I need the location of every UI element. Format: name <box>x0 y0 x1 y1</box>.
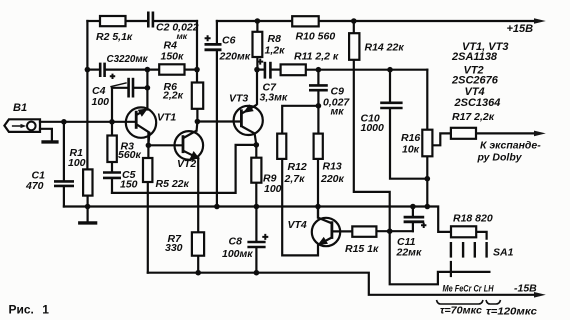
svg-text:мк: мк <box>177 31 188 41</box>
node: C6 bottom on rail <box>214 204 220 210</box>
wire: C1 branch <box>63 122 65 180</box>
switch SA1 contact 4 <box>485 243 487 256</box>
transistor VT3 <box>234 105 263 145</box>
svg-text:R5 22к: R5 22к <box>156 178 190 190</box>
node: R7 bottom on -15V rail <box>195 270 201 276</box>
plus C8 <box>262 234 268 240</box>
svg-text:SA1: SA1 <box>493 247 514 259</box>
svg-text:VT3: VT3 <box>229 93 248 105</box>
wire: R17 output arrow to expander <box>476 132 536 134</box>
svg-text:100мк: 100мк <box>222 248 253 260</box>
input connector B1 <box>4 119 40 132</box>
svg-text:220к: 220к <box>320 173 345 185</box>
node: R14 top on +15V rail <box>351 18 357 24</box>
wire: ground rail y=206.5 <box>64 207 451 232</box>
wire: switch wiper tick <box>450 262 452 276</box>
ground symbol at input connector <box>40 129 52 141</box>
wire: VT1 emitter vertical <box>146 70 148 110</box>
svg-text:1000: 1000 <box>361 122 385 134</box>
svg-text:100: 100 <box>68 157 86 169</box>
svg-text:C8: C8 <box>229 236 243 248</box>
node: R6 bottom / VT2 collector / VT3 base <box>195 119 201 125</box>
node: R16 bottom on rail <box>425 204 431 210</box>
wire: R5 bottom down to -15V rail <box>147 182 149 273</box>
plus C3 <box>110 74 115 79</box>
switch SA1 contact 1 <box>450 243 452 256</box>
svg-text:470: 470 <box>25 180 44 192</box>
wire: VT3 emitter up to R8/C7 node <box>256 70 258 104</box>
svg-text:150: 150 <box>120 179 138 191</box>
capacitor C4 plates <box>127 78 130 98</box>
svg-text:Рис. 1: Рис. 1 <box>9 303 50 317</box>
wire: feedback wire y=192.9 <box>112 145 256 193</box>
wire: VT1 collector to VT2 base node <box>147 133 149 158</box>
capacitor C2 plates <box>147 12 150 28</box>
wire: left vertical x=87.4 from R2 down through R1 to ground rail <box>86 21 88 169</box>
transistor VT2 <box>175 131 204 160</box>
wire: C9 bottom node to R12 <box>282 106 318 134</box>
wire: C8 branch <box>255 207 257 241</box>
svg-text:22мк: 22мк <box>396 247 422 259</box>
wire: VT2 emitter down through R7 to -15V rail <box>197 158 199 232</box>
wire: top-left loop horizontal (R2/C2 branch) <box>87 20 100 22</box>
svg-text:R17 2,2к: R17 2,2к <box>452 111 495 123</box>
svg-text:R12: R12 <box>288 161 307 173</box>
svg-text:2,2к: 2,2к <box>162 90 184 102</box>
resistor R12 <box>277 134 286 159</box>
svg-text:C6: C6 <box>222 35 236 47</box>
resistor R14 <box>349 33 359 60</box>
wire: R12 down and U to VT4 emitter <box>282 159 318 256</box>
wire: R6 node to VT3 base <box>197 120 241 122</box>
node: C8 bottom on -15V rail <box>254 270 260 276</box>
node: C9 top on y=69.7 wire <box>316 67 322 73</box>
transistor VT4 <box>312 207 340 247</box>
node: R15/C11/R14-line junction <box>387 228 393 234</box>
wire: +15V arrowhead <box>534 18 546 24</box>
node: R8/C7/VT3 emitter <box>254 67 260 73</box>
node: R4/R6 junction <box>194 67 200 73</box>
plus C7 <box>257 59 263 65</box>
svg-text:2SC1364: 2SC1364 <box>454 97 501 109</box>
resistor R13 <box>314 134 323 159</box>
resistor R16 <box>422 130 432 157</box>
svg-text:10к: 10к <box>402 144 420 156</box>
svg-text:2,7к: 2,7к <box>284 173 306 185</box>
svg-text:мк: мк <box>331 106 345 118</box>
svg-text:VT1: VT1 <box>157 112 176 124</box>
wire: C10 branch <box>389 70 391 102</box>
svg-text:R11 2,2 к: R11 2,2 к <box>294 51 339 63</box>
node: R8 top on +15V rail <box>255 18 261 24</box>
svg-text:R16: R16 <box>401 132 420 144</box>
resistor R1 <box>83 169 92 195</box>
node: R9 bottom / C8 on rail <box>254 204 260 210</box>
svg-text:С3220мк: С3220мк <box>107 54 149 65</box>
transistor VT1 <box>126 107 156 145</box>
node: input/C1 junction <box>61 119 67 125</box>
capacitor C1 plates <box>54 180 74 183</box>
svg-text:100: 100 <box>264 183 282 195</box>
capacitor C9 plates <box>309 84 328 87</box>
wire: R15 right to C11 <box>376 230 413 232</box>
polarity plus signs <box>110 35 427 240</box>
svg-text:B1: B1 <box>13 102 27 114</box>
svg-text:R10 560: R10 560 <box>296 31 336 43</box>
resistor R7 <box>192 232 204 255</box>
resistor R8 <box>253 32 263 57</box>
capacitor C6 plates <box>205 43 222 46</box>
wire: R18 right lead down to contact <box>476 232 486 239</box>
wire: R14 column with jog down to switch common <box>353 21 355 33</box>
plus C11 <box>421 223 426 228</box>
resistor R3 <box>107 136 116 163</box>
node: C9 bottom / R12 / R13 <box>316 103 322 109</box>
wire: VT2 collector up to R6 node <box>196 122 199 131</box>
wire: vertical x=197 (C2 corner down to R6) <box>196 21 198 83</box>
wire: horizontal y=69.6 right section (C7/R11/C9/C10/R16) <box>257 68 264 70</box>
wire: R16 leads <box>426 70 428 130</box>
node: VT3 collector / R9 / feedback <box>253 142 259 148</box>
svg-text:2SA1138: 2SA1138 <box>451 51 498 63</box>
switch SA1 contact 2 <box>462 243 464 256</box>
wire: VT3 collector node down through R9 to ground rail <box>255 145 257 158</box>
svg-text:R8: R8 <box>268 33 282 45</box>
svg-text:220мк: 220мк <box>219 51 251 63</box>
svg-text:τ=70мкс: τ=70мкс <box>440 306 482 317</box>
resistor R2 <box>100 16 126 26</box>
resistor R4 <box>159 64 184 74</box>
svg-text:τ=120мкс: τ=120мкс <box>486 307 537 318</box>
svg-text:Ме FeCr Cr LH: Ме FeCr Cr LH <box>443 284 494 294</box>
node: VT1 emitter on y=69.6 wire <box>145 67 151 73</box>
svg-text:VT4: VT4 <box>288 219 307 231</box>
node: C10 bottom wire to R16 line <box>425 176 431 182</box>
svg-text:-15В: -15В <box>514 283 537 295</box>
wire: R16 wiper to R17 <box>432 133 451 145</box>
resistor R10 <box>292 16 319 26</box>
capacitor C11 plates <box>404 216 425 219</box>
ground symbol on ground rail <box>86 207 88 222</box>
wire: R3/C5 branch vertical x=112 <box>111 122 113 136</box>
svg-text:+15В: +15В <box>507 23 534 35</box>
node: C11 top on rail <box>410 204 416 210</box>
wire: VT4 base to R15 <box>332 230 352 232</box>
svg-text:560к: 560к <box>118 149 142 161</box>
node: R1 / ground symbol on rail <box>85 204 91 210</box>
wire: R13 top lead <box>317 106 319 134</box>
svg-text:2SC2676: 2SC2676 <box>451 75 499 87</box>
wire: C9 branch <box>317 70 319 85</box>
wire: +15V rail top <box>217 20 536 22</box>
node: R13/VT4 collector on rail <box>315 204 321 210</box>
svg-text:R14 22к: R14 22к <box>365 42 405 54</box>
svg-text:ру Dolby: ру Dolby <box>477 152 523 164</box>
svg-text:R18 820: R18 820 <box>453 213 493 225</box>
wire: horizontal y=69.6 (VT1 emitter net) <box>87 68 99 70</box>
wire: R8 leads <box>256 21 258 32</box>
resistor R9 <box>251 158 261 183</box>
node: input/R3/C4 junction <box>109 119 115 125</box>
node: C10 top on y=69.7 wire <box>387 67 393 73</box>
node: R2/C3 left junction <box>85 67 91 73</box>
capacitor C8 plates <box>247 241 265 244</box>
wire: C4 leads <box>112 87 127 89</box>
svg-text:3,3мк: 3,3мк <box>260 92 288 104</box>
svg-text:150к: 150к <box>161 51 185 63</box>
capacitor C7 plates <box>264 62 267 79</box>
svg-text:330: 330 <box>165 242 183 254</box>
resistor R5 <box>143 158 152 182</box>
resistor R6 <box>192 83 203 109</box>
tau range brackets <box>437 300 501 304</box>
wire: C6 branch from rail corner to ground rail <box>216 21 218 43</box>
plus C6 <box>205 35 211 41</box>
node: VT1 collector / VT2 base / R5 <box>146 143 152 149</box>
svg-text:R13: R13 <box>323 161 342 173</box>
resistor R17 <box>451 128 476 139</box>
svg-text:100: 100 <box>92 96 110 108</box>
svg-text:1,2к: 1,2к <box>265 45 286 57</box>
wire: C4 label pointer <box>111 83 126 87</box>
resistor R15 <box>352 226 376 236</box>
wire: C11 leads <box>412 223 414 231</box>
svg-text:R15 1к: R15 1к <box>345 243 379 255</box>
wire: -15V arrowhead <box>534 292 546 298</box>
wire: R13 bottom / VT4 collector vertical <box>317 159 319 218</box>
resistor R11 <box>281 64 306 75</box>
svg-text:VT2: VT2 <box>177 158 196 170</box>
capacitor C10 plates <box>380 102 402 105</box>
svg-text:К экспанде-: К экспанде- <box>480 140 541 152</box>
node: C4 right plate to emitter line <box>145 85 151 91</box>
capacitor C3 plates <box>99 63 102 77</box>
capacitor C5 plates <box>103 171 121 174</box>
switch SA1 contact 3 <box>474 243 476 256</box>
wire: -15V rail <box>148 273 535 295</box>
svg-text:R2 5,1к: R2 5,1к <box>96 31 133 43</box>
wire: input signal wire <box>40 121 136 123</box>
resistor R18 <box>451 226 476 237</box>
